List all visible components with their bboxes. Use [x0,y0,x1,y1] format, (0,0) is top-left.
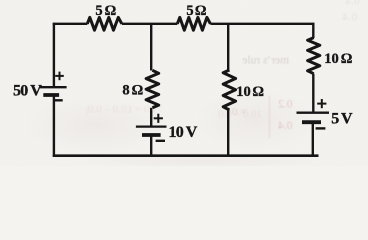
svg-text:0.4: 0.4 [345,0,359,8]
svg-text:50 V: 50 V [13,83,42,100]
svg-text:0.4: 0.4 [278,120,293,132]
svg-text:5V: 5V [331,110,353,127]
svg-text:0.4: 0.4 [343,10,358,24]
svg-text:10Ω: 10Ω [324,51,352,67]
svg-text:10Ω: 10Ω [236,84,264,100]
svg-text:= 0: = 0 [232,106,247,118]
svg-text:10 V: 10 V [169,124,198,141]
svg-text:mer’s rule: mer’s rule [242,55,289,67]
svg-text:8Ω: 8Ω [122,83,143,99]
svg-text:5Ω: 5Ω [95,3,116,19]
svg-text:0.2: 0.2 [278,99,293,111]
svg-text:5Ω: 5Ω [186,3,206,19]
